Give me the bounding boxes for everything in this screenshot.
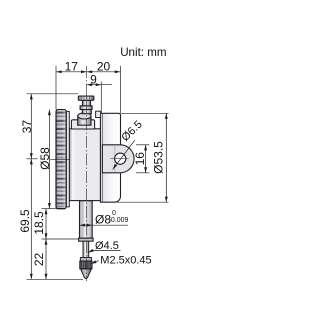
case band highlight: [72, 130, 75, 200]
svg-text:M2.5x0.45: M2.5x0.45: [100, 254, 151, 266]
cap knurl lines: [81, 96, 92, 100]
dim line 17/20: [56, 71, 120, 73]
cap neck: [83, 100, 91, 106]
plunger centerline: [86, 66, 88, 281]
ext stem end y=239: [42, 238, 79, 240]
arrow leader M2.5: [90, 260, 96, 265]
ext plate rear x=120.4: [119, 66, 121, 113]
contact point cone tip: [81, 269, 92, 279]
center stub at bezel mid: [50, 158, 69, 160]
arrows 20: [87, 70, 93, 73]
spindle stem (Ø8): [80, 201, 93, 238]
landing line Ø4.5: [92, 249, 120, 251]
svg-text:16: 16: [133, 152, 147, 166]
dim line 37/69.5: [30, 94, 32, 279]
arrows Ø58: [48, 110, 51, 116]
svg-text:Ø58: Ø58: [38, 147, 52, 170]
svg-text:20: 20: [97, 60, 111, 74]
contact point collar: [80, 258, 91, 262]
svg-text:9: 9: [90, 72, 97, 86]
ext lug top y=144.8: [136, 144, 149, 146]
arrows Ø8: [80, 224, 86, 227]
ext plate top y=113.3: [121, 112, 169, 114]
cap lower flange: [80, 106, 92, 110]
leader Ø4.5: [88, 250, 93, 252]
bracket plate on case top: [71, 120, 94, 129]
lower rod (Ø4.5): [83, 241, 89, 257]
dim line Ø53.5: [165, 113, 167, 202]
svg-text:17: 17: [65, 60, 79, 74]
cap top knurled flange: [78, 96, 94, 100]
small mechanism block right of bracket: [96, 111, 101, 117]
stem end washer: [79, 238, 94, 241]
ext stub hole center left y=158.8: [27, 158, 38, 160]
arrows 9: [87, 83, 93, 86]
svg-text:Unit: mm: Unit: mm: [120, 46, 166, 59]
arrows 16: [144, 145, 147, 151]
dim line Ø58: [48, 110, 50, 209]
ext plate bottom y=202.2: [115, 201, 169, 203]
dim line 16: [145, 145, 147, 173]
arrows Ø53.5: [165, 113, 168, 119]
ext lug bottom y=172.8: [136, 172, 149, 174]
leader Ø6.5: [113, 140, 135, 169]
arrow leader Ø6.5: [112, 164, 118, 170]
svg-text:69.5: 69.5: [18, 209, 32, 233]
svg-text:22: 22: [32, 253, 46, 267]
stem bushing top ellipse: [78, 113, 91, 119]
ext plate front x=101.3: [100, 82, 102, 114]
contact point knurled band: [80, 261, 92, 269]
svg-text:37: 37: [20, 120, 34, 134]
ext bezel bottom y=208.7: [42, 208, 57, 210]
dim line 9: [87, 84, 112, 86]
dim line Ø8: [80, 224, 129, 226]
lug hole (Ø6.5): [115, 153, 126, 164]
arrows 37: [30, 94, 33, 100]
ext tip y=279.3: [27, 278, 84, 280]
arrows 69.5: [30, 159, 33, 165]
leader M2.5x0.45: [91, 261, 99, 264]
lug fold line: [114, 145, 116, 172]
svg-text:Ø53.5: Ø53.5: [151, 141, 165, 174]
stem bushing cylinder: [78, 116, 91, 125]
cap boss: [82, 109, 91, 113]
dim line 18.5/22: [45, 209, 47, 280]
svg-text:0: 0: [112, 210, 116, 217]
mounting lug: [102, 145, 134, 173]
svg-text:18.5: 18.5: [32, 211, 46, 235]
ext top of cap y=93.8: [27, 93, 79, 95]
svg-text:-0.009: -0.009: [109, 217, 129, 224]
svg-text:Ø4.5: Ø4.5: [95, 240, 119, 252]
arrows 22: [45, 239, 48, 245]
bezel rim (between knurl and case): [66, 111, 69, 206]
back plate (Ø53.5): [100, 113, 120, 202]
arrows 18.5: [45, 209, 48, 215]
back plate inner edge line: [101, 114, 103, 202]
lug hole centerline horizontal: [111, 158, 129, 160]
case band (middle cylinder between bezel and back plate): [69, 129, 100, 201]
case band inner edge line: [70, 129, 72, 200]
arrows 17: [56, 70, 62, 73]
ext bezel front x=56: [55, 66, 57, 110]
arrow leader Ø4.5: [87, 249, 93, 254]
